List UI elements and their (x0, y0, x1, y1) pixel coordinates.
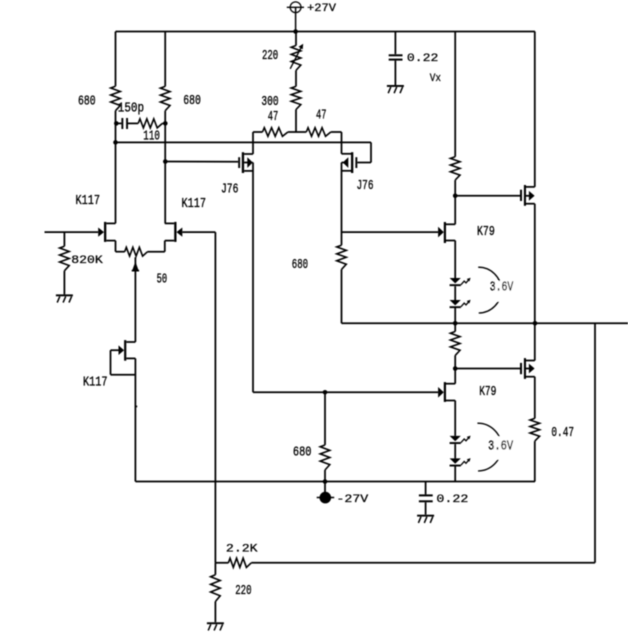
svg-text:+27V: +27V (307, 3, 336, 15)
svg-text:0.47: 0.47 (551, 425, 574, 441)
svg-text:3.6V: 3.6V (490, 280, 514, 296)
svg-text:-27V: -27V (336, 494, 368, 506)
svg-text:50: 50 (157, 271, 168, 287)
svg-text:2.2K: 2.2K (226, 543, 258, 555)
svg-text:0.22: 0.22 (436, 494, 468, 506)
svg-text:K117: K117 (76, 193, 101, 209)
svg-text:820K: 820K (71, 255, 103, 267)
svg-text:0.22: 0.22 (407, 53, 439, 65)
svg-text:680: 680 (78, 93, 96, 109)
svg-text:220: 220 (262, 48, 278, 64)
svg-text:K79: K79 (479, 384, 496, 400)
svg-text:3.6V: 3.6V (488, 439, 513, 455)
svg-text:680: 680 (292, 257, 308, 273)
svg-text:47: 47 (316, 108, 327, 124)
svg-text:150p: 150p (118, 100, 144, 116)
svg-text:J76: J76 (221, 181, 238, 197)
svg-text:47: 47 (268, 109, 279, 125)
svg-text:Vx: Vx (430, 73, 442, 85)
svg-text:110: 110 (143, 129, 160, 145)
svg-text:K79: K79 (477, 224, 495, 240)
svg-text:680: 680 (183, 93, 201, 109)
svg-text:J76: J76 (357, 178, 374, 194)
svg-text:680: 680 (293, 445, 312, 461)
svg-text:220: 220 (235, 583, 251, 599)
svg-text:300: 300 (261, 94, 278, 110)
svg-text:K117: K117 (182, 196, 207, 212)
svg-text:K117: K117 (83, 374, 108, 390)
